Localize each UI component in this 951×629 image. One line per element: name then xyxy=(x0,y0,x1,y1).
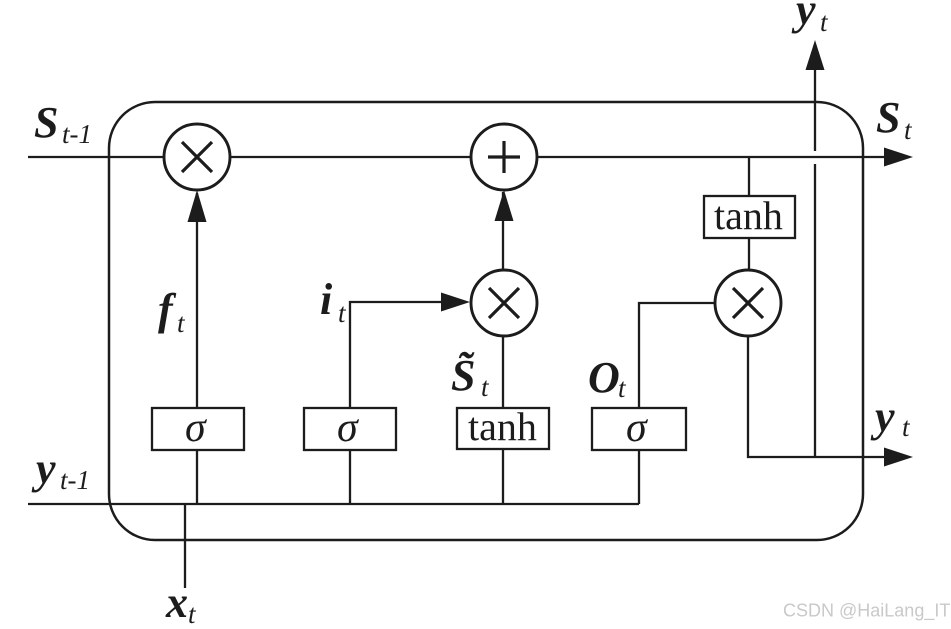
svg-text:tanh: tanh xyxy=(468,404,537,449)
arrowhead: M2 into adder A1 xyxy=(495,190,514,221)
svg-text:σ: σ xyxy=(185,405,208,451)
svg-text:σ: σ xyxy=(626,405,649,451)
svg-text:t: t xyxy=(902,412,911,442)
arrowhead: f_t into M1 xyxy=(188,190,207,222)
adder node A1 (cell-state sum) xyxy=(471,124,537,190)
arrowhead: S_t output (right) xyxy=(884,148,913,167)
gate box tanh-mid (candidate state) xyxy=(457,408,549,449)
multiplier node M1 (forget gate product) xyxy=(164,124,230,190)
svg-text:t: t xyxy=(618,373,627,403)
svg-text:S: S xyxy=(34,98,58,147)
LSTM cell boundary (rounded box) xyxy=(109,102,863,540)
wire: cell-state line down to tanh-right box xyxy=(748,157,750,196)
svg-text:t: t xyxy=(338,298,347,328)
svg-text:O: O xyxy=(588,353,620,402)
wire: input gate i_t elbow to multiplier M2 xyxy=(350,302,444,408)
cross mark of multiplier M1 xyxy=(182,142,212,172)
svg-text:y: y xyxy=(31,444,56,493)
svg-text:tanh: tanh xyxy=(714,193,783,238)
svg-text:i: i xyxy=(320,275,333,324)
svg-text:y: y xyxy=(870,392,895,441)
arrowhead: i_t into M2 xyxy=(441,293,470,312)
svg-text:S: S xyxy=(876,93,900,142)
wire: multiplier M2 up-arrow stem to adder A1 xyxy=(502,192,504,269)
svg-text:t: t xyxy=(177,308,186,338)
svg-text:t: t xyxy=(188,599,197,629)
wire: forget gate f_t arrow stem up to multiplier M1 xyxy=(196,193,198,408)
wire: input x_t rising to y_{t-1} line xyxy=(184,504,186,588)
svg-text:t: t xyxy=(904,115,913,145)
multiplier node M2 (input gate product) xyxy=(471,270,537,336)
gate box sigma1 (forget gate) xyxy=(152,408,244,450)
gate box sigma3 (output gate) xyxy=(592,408,686,450)
cross mark of multiplier M3 xyxy=(733,288,763,318)
arrowhead: y_t output top xyxy=(806,40,825,70)
svg-text:σ: σ xyxy=(337,405,360,451)
wire: sigma3 drop to y_{t-1} line xyxy=(638,450,640,504)
svg-text:y: y xyxy=(791,0,816,34)
cross mark of multiplier M2 xyxy=(489,288,519,318)
svg-text:t-1: t-1 xyxy=(60,465,90,495)
svg-text:f: f xyxy=(158,285,177,334)
wire: sigma1 drop to y_{t-1} line xyxy=(196,450,198,504)
svg-text:t-1: t-1 xyxy=(62,119,92,149)
plus mark of adder A1 xyxy=(488,141,520,173)
wire: recurrent input line y_{t-1} (horizontal, y=504) xyxy=(28,503,639,505)
svg-text:t: t xyxy=(820,7,829,37)
wire: sigma2 drop to y_{t-1} line xyxy=(349,450,351,504)
arrowhead: y_t output right xyxy=(884,448,913,467)
wire: output branch y_t rising, upper segment (hops S line) xyxy=(814,68,816,151)
wire: tanh-mid up to multiplier M2 xyxy=(502,337,504,408)
svg-text:x: x xyxy=(165,578,188,627)
gate box sigma2 (input gate) xyxy=(304,408,396,450)
svg-text:t: t xyxy=(481,372,490,402)
wire: output branch y_t rising, lower segment xyxy=(814,164,816,457)
wire: tanh-right down to multiplier M3 xyxy=(748,238,750,269)
gate box tanh-right (output squash) xyxy=(704,196,795,238)
svg-text:S̃: S̃ xyxy=(451,351,475,400)
wire: tanh-mid drop to y_{t-1} line xyxy=(502,450,504,504)
wire: cell-state line S_{t-1} to S_t (horizontal, y=157) xyxy=(28,156,886,158)
multiplier node M3 (output gate product) xyxy=(715,270,781,336)
wire: output gate O_t elbow to multiplier M3 xyxy=(639,303,714,408)
svg-text:CSDN @HaiLang_IT: CSDN @HaiLang_IT xyxy=(783,601,950,622)
wire: multiplier M3 down and right to output y_t xyxy=(748,337,886,457)
